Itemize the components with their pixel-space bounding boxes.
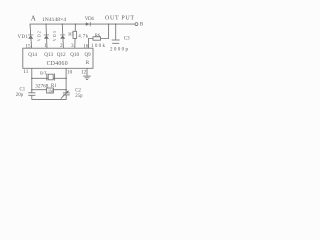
svg-text:C3: C3 — [124, 36, 130, 41]
svg-text:CD4060: CD4060 — [47, 61, 68, 67]
svg-text:11: 11 — [23, 69, 28, 75]
svg-text:B/T: B/T — [40, 71, 47, 76]
svg-text:R6: R6 — [95, 32, 101, 37]
svg-text:100k: 100k — [91, 44, 106, 49]
svg-text:16: 16 — [83, 43, 89, 49]
svg-text:C1: C1 — [20, 87, 26, 92]
svg-text:15: 15 — [25, 43, 31, 49]
svg-text:1M: 1M — [48, 89, 54, 94]
svg-text:Q9: Q9 — [85, 53, 92, 58]
svg-text:12: 12 — [81, 69, 87, 75]
svg-text:20p: 20p — [16, 93, 24, 98]
svg-text:4.7k: 4.7k — [78, 35, 89, 40]
svg-text:Q14: Q14 — [28, 52, 37, 58]
svg-text:32768: 32768 — [35, 83, 49, 89]
svg-text:B: B — [140, 22, 144, 28]
svg-text:VD2: VD2 — [36, 31, 41, 41]
svg-text:1: 1 — [44, 43, 47, 49]
svg-text:OUT PUT: OUT PUT — [105, 15, 134, 21]
svg-text:2000p: 2000p — [110, 47, 129, 52]
svg-text:R: R — [86, 61, 90, 66]
svg-text:1N4148×4: 1N4148×4 — [42, 17, 66, 23]
svg-text:2: 2 — [60, 43, 63, 49]
svg-text:R5: R5 — [68, 32, 74, 37]
svg-text:25p: 25p — [75, 94, 83, 99]
svg-text:C2: C2 — [75, 88, 81, 93]
svg-text:VD4: VD4 — [85, 17, 95, 22]
svg-text:VD3: VD3 — [52, 31, 57, 41]
svg-text:VD1: VD1 — [18, 35, 29, 40]
svg-text:Q13: Q13 — [44, 52, 53, 58]
svg-text:Q12: Q12 — [57, 52, 66, 58]
svg-text:10: 10 — [67, 69, 73, 75]
svg-text:3: 3 — [71, 43, 74, 49]
svg-text:A: A — [31, 15, 36, 23]
svg-text:Q10: Q10 — [70, 52, 79, 58]
